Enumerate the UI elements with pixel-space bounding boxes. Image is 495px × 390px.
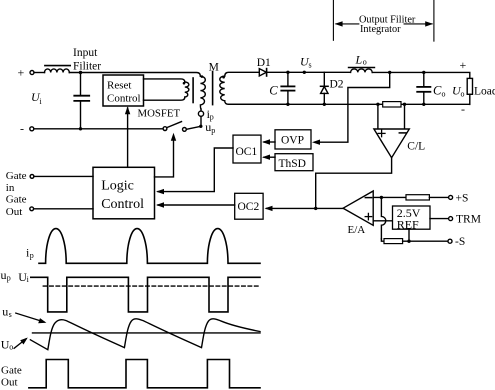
svg-text:Gate: Gate: [6, 194, 27, 206]
svg-text:Reset: Reset: [107, 80, 131, 92]
svg-text:-: -: [20, 122, 24, 136]
svg-text:s: s: [309, 61, 312, 70]
svg-text:in: in: [6, 182, 15, 194]
svg-text:M: M: [209, 62, 219, 74]
svg-text:o: o: [363, 57, 367, 66]
svg-text:Out: Out: [1, 377, 18, 389]
svg-text:D1: D1: [257, 57, 271, 69]
svg-text:u: u: [2, 304, 8, 318]
svg-text:Gate: Gate: [1, 365, 22, 377]
svg-text:-S: -S: [455, 236, 465, 248]
svg-text:s: s: [9, 310, 12, 319]
svg-text:o: o: [442, 89, 446, 98]
svg-text:OVP: OVP: [281, 135, 304, 147]
svg-text:OC2: OC2: [238, 201, 260, 213]
svg-text:p: p: [7, 274, 11, 283]
svg-text:MOSFET: MOSFET: [138, 107, 181, 119]
svg-text:Input: Input: [73, 47, 98, 59]
svg-text:Out: Out: [6, 206, 23, 218]
svg-text:Gate: Gate: [6, 170, 27, 182]
svg-text:+S: +S: [456, 192, 469, 204]
svg-text:u: u: [1, 268, 7, 282]
svg-text:o: o: [461, 89, 465, 98]
svg-text:C/L: C/L: [407, 141, 425, 153]
svg-text:p: p: [30, 251, 34, 260]
svg-text:+: +: [460, 58, 467, 72]
svg-text:Control: Control: [101, 197, 144, 212]
svg-text:o: o: [9, 343, 13, 352]
svg-text:OC1: OC1: [236, 146, 258, 158]
svg-text:C: C: [269, 84, 278, 98]
svg-text:TRM: TRM: [456, 214, 481, 226]
svg-text:ThSD: ThSD: [279, 158, 306, 170]
svg-text:-: -: [461, 102, 465, 116]
svg-text:D2: D2: [330, 79, 344, 91]
svg-text:Logic: Logic: [101, 179, 134, 194]
svg-text:Filiter: Filiter: [73, 60, 101, 72]
svg-text:+: +: [18, 66, 25, 80]
svg-text:Load: Load: [474, 86, 495, 98]
svg-text:E/A: E/A: [348, 224, 366, 236]
svg-text:L: L: [355, 53, 363, 67]
svg-text:Control: Control: [107, 92, 141, 104]
svg-text:Integrator: Integrator: [360, 24, 401, 35]
svg-text:REF: REF: [397, 218, 419, 232]
svg-text:p: p: [211, 126, 215, 135]
